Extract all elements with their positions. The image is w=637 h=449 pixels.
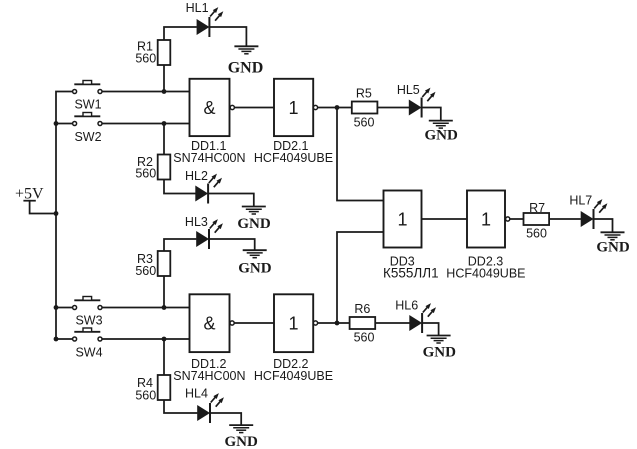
- svg-text:560: 560: [135, 264, 156, 278]
- svg-text:SN74HC00N: SN74HC00N: [173, 369, 245, 383]
- svg-text:560: 560: [135, 166, 156, 180]
- svg-text:560: 560: [526, 227, 547, 241]
- svg-text:HL2: HL2: [185, 169, 208, 183]
- svg-text:SW2: SW2: [74, 130, 101, 144]
- svg-text:R5: R5: [356, 86, 372, 100]
- svg-text:&: &: [203, 314, 215, 334]
- svg-text:560: 560: [135, 51, 156, 65]
- svg-text:GND: GND: [228, 60, 264, 77]
- svg-text:GND: GND: [225, 434, 259, 449]
- svg-text:HL1: HL1: [186, 1, 209, 15]
- svg-text:1: 1: [288, 314, 298, 334]
- svg-text:HL6: HL6: [395, 298, 418, 312]
- svg-text:R6: R6: [354, 302, 370, 316]
- svg-text:560: 560: [354, 331, 375, 345]
- svg-text:GND: GND: [237, 216, 271, 232]
- svg-text:HL7: HL7: [569, 194, 592, 208]
- svg-text:GND: GND: [596, 239, 630, 255]
- svg-text:К555ЛЛ1: К555ЛЛ1: [383, 265, 439, 280]
- svg-text:+5V: +5V: [15, 186, 44, 203]
- svg-text:HL3: HL3: [185, 215, 208, 229]
- svg-text:1: 1: [481, 210, 491, 230]
- svg-text:HCF4049UBE: HCF4049UBE: [254, 369, 333, 383]
- svg-text:GND: GND: [238, 260, 272, 276]
- svg-text:HL4: HL4: [185, 387, 208, 401]
- svg-text:GND: GND: [423, 345, 457, 361]
- svg-text:HCF4049UBE: HCF4049UBE: [446, 266, 525, 280]
- svg-text:HL5: HL5: [397, 83, 420, 97]
- svg-text:560: 560: [354, 115, 375, 129]
- svg-text:SW4: SW4: [75, 346, 102, 360]
- svg-text:1: 1: [397, 210, 407, 230]
- svg-text:&: &: [203, 98, 215, 118]
- svg-text:560: 560: [135, 388, 156, 402]
- svg-text:SN74HC00N: SN74HC00N: [173, 151, 245, 165]
- svg-text:HCF4049UBE: HCF4049UBE: [254, 151, 333, 165]
- svg-text:1: 1: [288, 98, 298, 118]
- svg-text:GND: GND: [425, 128, 459, 144]
- svg-text:R7: R7: [529, 201, 545, 215]
- svg-text:SW1: SW1: [74, 98, 101, 112]
- svg-text:SW3: SW3: [75, 314, 102, 328]
